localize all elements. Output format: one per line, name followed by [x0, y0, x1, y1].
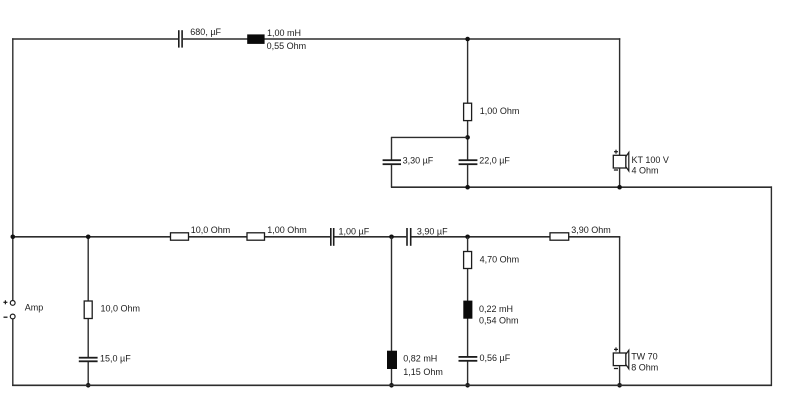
svg-text:10,0 Ohm: 10,0 Ohm [101, 304, 141, 314]
capacitor C6 15.0µF [79, 357, 98, 362]
svg-text:1,15 Ohm: 1,15 Ohm [403, 367, 443, 377]
resistor R6 4.70 Ohm [464, 252, 472, 269]
svg-text:4 Ohm: 4 Ohm [632, 166, 659, 176]
wire KT branch lower [619, 168, 621, 187]
svg-text:8 Ohm: 8 Ohm [631, 362, 658, 372]
capacitor C2 3.30µF [383, 159, 401, 165]
amp minus terminal [10, 314, 15, 319]
capacitor C3 22.0µF [459, 159, 478, 165]
wire mid branch lower (top section) [467, 165, 469, 187]
svg-text:10,0 Ohm: 10,0 Ohm [191, 225, 231, 235]
node mid branch top [465, 37, 470, 42]
wire mid bottom branch upper [467, 237, 469, 356]
wire TW branch upper [619, 237, 621, 353]
node left rail / bottom-section rail [11, 235, 16, 240]
svg-text:1,00 Ohm: 1,00 Ohm [267, 225, 307, 235]
svg-text:680, µF: 680, µF [190, 27, 221, 37]
node R1 branch top [86, 235, 91, 240]
capacitor C4 1.00µF [330, 228, 335, 246]
node mid bottom branch / rail [465, 235, 470, 240]
capacitor C1 680µF [178, 30, 183, 47]
svg-text:0,56 µF: 0,56 µF [480, 353, 511, 363]
svg-text:4,70 Ohm: 4,70 Ohm [480, 254, 520, 264]
wire mid bottom branch lower [467, 362, 469, 386]
svg-text:15,0 µF: 15,0 µF [100, 354, 131, 364]
wire right rail [770, 186, 772, 386]
wire 3.3uF top rail [391, 136, 468, 138]
node L2 branch bottom [389, 383, 394, 388]
node mid branch bottom [465, 185, 470, 190]
wire bottom rail [12, 384, 772, 386]
resistor R5 3.90 Ohm (series) [550, 233, 569, 240]
node at mid branch and 3.3uF rail [465, 135, 470, 140]
wire TW branch lower [619, 366, 621, 386]
svg-text:Amp: Amp [25, 303, 44, 313]
wire KT branch upper [619, 38, 621, 155]
inductor L1 1.00mH 0.55Ohm [247, 34, 264, 44]
svg-text:1,00 Ohm: 1,00 Ohm [480, 106, 520, 116]
svg-text:1,00 mH: 1,00 mH [267, 28, 301, 38]
svg-text:0,82 mH: 0,82 mH [403, 354, 437, 364]
wire bottom-section top rail seg1 [12, 236, 330, 238]
resistor R4 1.00 Ohm (series) [247, 233, 265, 240]
capacitor C5 3.90µF [406, 228, 411, 246]
svg-text:TW 70: TW 70 [631, 352, 658, 362]
amp plus terminal [10, 301, 15, 306]
node KT bottom [617, 185, 622, 190]
node R1 branch bottom [86, 383, 91, 388]
svg-text:3,90 Ohm: 3,90 Ohm [571, 225, 611, 235]
wire top-section bottom rail [391, 186, 772, 188]
speaker KT 100 V [613, 150, 629, 171]
wire mid branch upper (top section) [467, 39, 469, 160]
capacitor C7 0.56µF [459, 356, 478, 362]
svg-text:22,0 µF: 22,0 µF [479, 156, 510, 166]
wire R1 branch lower [87, 362, 89, 385]
resistor R1 10.0 Ohm (shunt) [84, 301, 92, 319]
wire top rail left segment [12, 38, 178, 40]
amp plus sign [3, 300, 7, 304]
svg-text:KT 100 V: KT 100 V [632, 155, 669, 165]
resistor R2 1.00 Ohm (top) [464, 103, 472, 120]
svg-text:3,30 µF: 3,30 µF [403, 156, 434, 166]
resistor R3 10.0 Ohm (series) [171, 233, 189, 240]
wire L2 branch [391, 237, 393, 385]
node mid bottom branch bottom [465, 383, 470, 388]
wire bottom-section top rail seg2 [334, 236, 406, 238]
wire 3.3uF branch lower [391, 165, 393, 187]
wire 3.3uF branch upper [391, 137, 393, 160]
node TW bottom [617, 383, 622, 388]
svg-text:1,00 µF: 1,00 µF [339, 226, 370, 236]
wire left rail upper [12, 38, 14, 300]
wire bottom-section top rail seg3 [411, 236, 620, 238]
svg-text:0,54 Ohm: 0,54 Ohm [479, 316, 519, 326]
inductor L2 0.82mH 1.15Ohm [387, 351, 397, 369]
wire R1 branch upper [87, 237, 89, 357]
wire top rail right segment [183, 38, 620, 40]
inductor L3 0.22mH 0.54Ohm [463, 301, 472, 319]
svg-text:3,90 µF: 3,90 µF [417, 226, 448, 236]
amp minus sign [4, 316, 8, 318]
node inductor branch / rail [389, 235, 394, 240]
wire left rail lower [12, 319, 14, 386]
speaker TW 70 [613, 347, 629, 368]
svg-text:0,22 mH: 0,22 mH [479, 304, 513, 314]
svg-text:0,55 Ohm: 0,55 Ohm [267, 41, 307, 51]
